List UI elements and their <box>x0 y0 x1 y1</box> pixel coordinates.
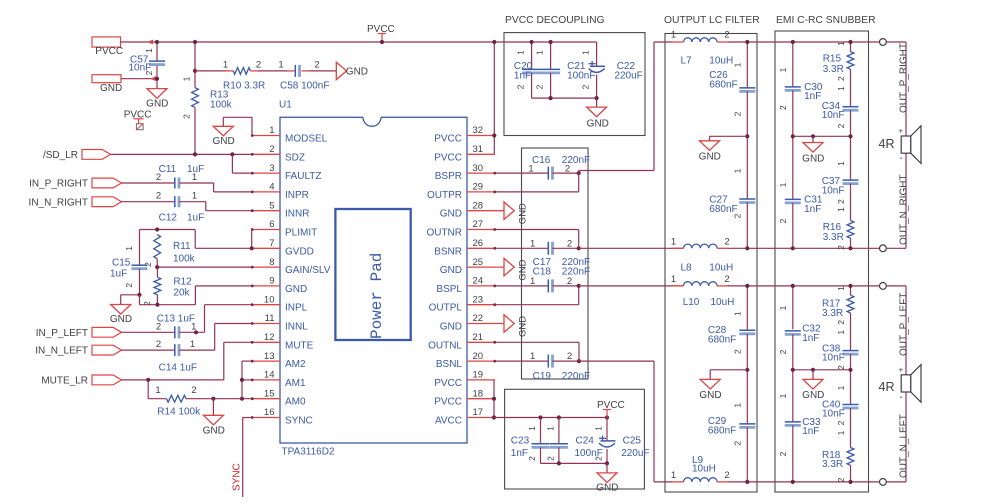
svg-text:1: 1 <box>836 430 846 435</box>
svg-text:4R: 4R <box>879 137 895 151</box>
svg-text:C13 1uF: C13 1uF <box>157 313 195 324</box>
svg-text:1: 1 <box>181 76 191 81</box>
svg-text:1: 1 <box>144 48 154 53</box>
svg-text:Power Pad: Power Pad <box>368 253 386 339</box>
svg-text:2: 2 <box>156 339 161 350</box>
svg-text:100k: 100k <box>173 254 196 265</box>
svg-text:OUT_N_LEFT: OUT_N_LEFT <box>899 414 910 478</box>
svg-text:2: 2 <box>124 283 134 288</box>
svg-text:GND: GND <box>802 154 824 165</box>
svg-text:+: + <box>899 127 904 136</box>
svg-text:2: 2 <box>836 123 846 128</box>
svg-text:2: 2 <box>724 470 729 481</box>
svg-text:2: 2 <box>156 190 161 201</box>
svg-text:3.3R: 3.3R <box>823 64 844 75</box>
svg-text:23: 23 <box>473 294 484 305</box>
svg-text:680nF: 680nF <box>709 79 737 90</box>
svg-text:2: 2 <box>724 30 729 41</box>
svg-text:GND: GND <box>100 83 122 94</box>
svg-text:PVCC: PVCC <box>434 134 462 145</box>
svg-text:2: 2 <box>515 84 525 89</box>
svg-text:1: 1 <box>733 403 743 408</box>
svg-text:2: 2 <box>181 114 191 119</box>
svg-text:22: 22 <box>473 313 484 324</box>
svg-text:EMI C-RC SNUBBER: EMI C-RC SNUBBER <box>776 15 876 26</box>
svg-text:19: 19 <box>473 370 484 381</box>
svg-text:C15: C15 <box>112 258 131 269</box>
svg-text:1nF: 1nF <box>802 333 819 344</box>
svg-text:AVCC: AVCC <box>435 416 462 427</box>
svg-text:4R: 4R <box>879 380 895 394</box>
svg-text:1nF: 1nF <box>802 426 819 437</box>
svg-text:1: 1 <box>528 163 533 174</box>
svg-text:1: 1 <box>124 246 134 251</box>
svg-text:2: 2 <box>778 349 788 354</box>
svg-text:R12: R12 <box>173 277 192 288</box>
svg-text:L10: L10 <box>683 297 700 308</box>
svg-text:1: 1 <box>223 60 228 71</box>
svg-text:R14 100k: R14 100k <box>157 407 201 418</box>
svg-text:2: 2 <box>534 84 544 89</box>
svg-text:GND: GND <box>699 390 721 401</box>
svg-text:MUTE_LR: MUTE_LR <box>41 376 88 387</box>
svg-text:GAIN/SLV: GAIN/SLV <box>285 265 331 276</box>
svg-text:BSPR: BSPR <box>435 171 462 182</box>
svg-text:2: 2 <box>778 218 788 223</box>
svg-text:2: 2 <box>733 441 743 446</box>
svg-text:100k: 100k <box>210 100 233 111</box>
svg-text:32: 32 <box>473 125 484 136</box>
svg-text:1uF: 1uF <box>110 268 127 279</box>
svg-text:MUTE: MUTE <box>285 340 314 351</box>
svg-text:20k: 20k <box>173 287 190 298</box>
svg-text:PLIMIT: PLIMIT <box>285 228 317 239</box>
svg-text:1: 1 <box>733 311 743 316</box>
svg-text:1uF: 1uF <box>187 212 204 223</box>
svg-text:GND: GND <box>110 314 132 325</box>
svg-text:31: 31 <box>473 144 484 155</box>
svg-text:1: 1 <box>671 470 676 481</box>
svg-text:U1: U1 <box>279 100 292 111</box>
svg-text:1: 1 <box>515 50 525 55</box>
svg-text:INNL: INNL <box>285 322 308 333</box>
svg-text:OUTNL: OUTNL <box>428 340 462 351</box>
svg-text:1: 1 <box>671 237 676 248</box>
svg-text:OUT_P_LEFT: OUT_P_LEFT <box>899 293 910 356</box>
svg-text:10nF: 10nF <box>822 353 845 364</box>
svg-text:3: 3 <box>269 163 274 174</box>
svg-text:1: 1 <box>836 161 846 166</box>
svg-text:OUTPR: OUTPR <box>427 190 462 201</box>
svg-text:220nF: 220nF <box>562 371 590 382</box>
svg-text:1: 1 <box>836 385 846 390</box>
svg-text:GND: GND <box>518 259 529 280</box>
svg-text:GND: GND <box>285 284 307 295</box>
svg-text:-: - <box>900 153 903 164</box>
svg-text:1: 1 <box>836 207 846 212</box>
svg-text:GND: GND <box>518 316 529 337</box>
svg-text:R11: R11 <box>173 241 191 252</box>
svg-text:1: 1 <box>269 125 274 136</box>
svg-text:BSPL: BSPL <box>436 284 462 295</box>
svg-text:17: 17 <box>473 407 484 418</box>
svg-text:1nF: 1nF <box>514 71 531 82</box>
svg-text:18: 18 <box>473 388 484 399</box>
svg-text:10uH: 10uH <box>709 263 733 274</box>
svg-text:1: 1 <box>594 426 604 431</box>
svg-text:GND: GND <box>440 265 462 276</box>
svg-text:2: 2 <box>836 76 846 81</box>
svg-text:680nF: 680nF <box>708 426 736 437</box>
svg-text:C18: C18 <box>533 267 552 278</box>
svg-text:OUT_P_RIGHT: OUT_P_RIGHT <box>899 43 910 113</box>
svg-text:1: 1 <box>190 339 195 350</box>
svg-text:C14 1uF: C14 1uF <box>159 363 197 374</box>
svg-text:R15: R15 <box>823 54 842 65</box>
svg-text:3.3R: 3.3R <box>823 232 844 243</box>
svg-text:C25: C25 <box>623 435 642 446</box>
svg-text:OUTNR: OUTNR <box>426 228 462 239</box>
svg-text:30: 30 <box>473 163 484 174</box>
svg-text:1: 1 <box>527 426 537 431</box>
svg-text:2: 2 <box>836 245 846 250</box>
svg-text:INPR: INPR <box>285 190 309 201</box>
svg-text:GND: GND <box>212 136 234 147</box>
svg-text:10uH: 10uH <box>692 464 716 475</box>
svg-text:2: 2 <box>724 237 729 248</box>
svg-text:220uF: 220uF <box>614 71 642 82</box>
svg-text:16: 16 <box>264 407 275 418</box>
svg-text:GND: GND <box>440 322 462 333</box>
svg-text:1: 1 <box>733 62 743 67</box>
svg-text:GND: GND <box>346 67 368 78</box>
svg-text:C23: C23 <box>511 435 530 446</box>
svg-text:1: 1 <box>530 351 535 362</box>
svg-text:220uF: 220uF <box>621 448 649 459</box>
svg-text:R10 3.3R: R10 3.3R <box>223 81 265 92</box>
svg-text:AM0: AM0 <box>285 397 306 408</box>
svg-text:2: 2 <box>191 385 196 396</box>
svg-text:GND: GND <box>587 118 609 129</box>
svg-text:10uH: 10uH <box>709 56 733 67</box>
svg-text:29: 29 <box>473 182 484 193</box>
svg-text:2: 2 <box>269 144 274 155</box>
svg-text:680nF: 680nF <box>708 335 736 346</box>
svg-text:1: 1 <box>778 305 788 310</box>
svg-text:PVCC: PVCC <box>434 378 462 389</box>
svg-text:OUT_N_RIGHT: OUT_N_RIGHT <box>899 174 910 245</box>
svg-text:680nF: 680nF <box>709 204 737 215</box>
svg-text:1: 1 <box>836 41 846 46</box>
svg-text:2: 2 <box>733 349 743 354</box>
svg-text:9: 9 <box>269 276 274 287</box>
svg-text:2: 2 <box>836 477 846 482</box>
svg-text:2: 2 <box>778 451 788 456</box>
svg-text:1uF: 1uF <box>187 164 204 175</box>
svg-text:AM1: AM1 <box>285 378 306 389</box>
svg-text:2: 2 <box>565 163 570 174</box>
svg-text:C11: C11 <box>159 164 177 175</box>
svg-text:PVCC DECOUPLING: PVCC DECOUPLING <box>505 15 605 26</box>
svg-text:1: 1 <box>192 190 197 201</box>
svg-text:BSNR: BSNR <box>434 246 462 257</box>
svg-text:100nF: 100nF <box>567 71 595 82</box>
svg-text:15: 15 <box>264 388 275 399</box>
svg-text:14: 14 <box>264 370 275 381</box>
svg-text:IN_N_RIGHT: IN_N_RIGHT <box>29 197 88 208</box>
svg-text:C12: C12 <box>159 212 178 223</box>
svg-text:MODSEL: MODSEL <box>285 134 328 145</box>
svg-text:6: 6 <box>269 219 274 230</box>
svg-text:2: 2 <box>545 456 555 461</box>
svg-text:C16: C16 <box>532 155 551 166</box>
svg-text:27: 27 <box>473 219 484 230</box>
svg-text:GND: GND <box>203 425 225 436</box>
svg-text:10nF: 10nF <box>822 110 845 121</box>
svg-text:2: 2 <box>733 111 743 116</box>
svg-text:13: 13 <box>264 351 275 362</box>
svg-text:2: 2 <box>733 213 743 218</box>
svg-text:10: 10 <box>264 294 275 305</box>
svg-text:26: 26 <box>473 238 484 249</box>
svg-text:C58 100nF: C58 100nF <box>280 81 329 92</box>
svg-text:GVDD: GVDD <box>285 246 314 257</box>
svg-text:GND: GND <box>440 209 462 220</box>
svg-text:7: 7 <box>269 238 274 249</box>
svg-text:20: 20 <box>473 351 484 362</box>
svg-text:IN_P_LEFT: IN_P_LEFT <box>36 328 88 339</box>
svg-text:25: 25 <box>473 257 484 268</box>
svg-text:/SD_LR: /SD_LR <box>43 150 78 161</box>
svg-text:2: 2 <box>836 320 846 325</box>
svg-text:L7: L7 <box>681 56 693 67</box>
svg-text:BSNL: BSNL <box>436 359 463 370</box>
svg-text:GND: GND <box>596 482 618 493</box>
svg-text:2: 2 <box>144 70 154 75</box>
svg-text:2: 2 <box>567 276 572 287</box>
svg-text:PVCC: PVCC <box>95 46 123 57</box>
svg-text:2: 2 <box>527 456 537 461</box>
svg-text:SDZ: SDZ <box>285 152 305 163</box>
svg-text:24: 24 <box>473 276 484 287</box>
svg-text:2: 2 <box>256 60 261 71</box>
svg-text:FAULTZ: FAULTZ <box>285 171 321 182</box>
svg-text:3.3R: 3.3R <box>822 459 843 470</box>
svg-text:2: 2 <box>836 420 846 425</box>
svg-text:1: 1 <box>580 50 590 55</box>
svg-text:PVCC: PVCC <box>434 152 462 163</box>
svg-text:21: 21 <box>473 332 484 343</box>
svg-text:SYNC: SYNC <box>232 463 243 491</box>
svg-text:2: 2 <box>778 105 788 110</box>
svg-text:GND: GND <box>518 203 529 224</box>
svg-text:4: 4 <box>269 182 274 193</box>
svg-text:1: 1 <box>278 60 283 71</box>
svg-text:1: 1 <box>733 168 743 173</box>
svg-text:1nF: 1nF <box>511 448 528 459</box>
svg-text:1: 1 <box>778 182 788 187</box>
svg-text:1: 1 <box>836 286 846 291</box>
svg-text:2: 2 <box>594 456 604 461</box>
svg-text:1: 1 <box>155 385 160 396</box>
svg-text:1: 1 <box>545 426 555 431</box>
svg-text:28: 28 <box>473 200 484 211</box>
svg-text:1nF: 1nF <box>804 91 821 102</box>
svg-text:2: 2 <box>314 60 319 71</box>
svg-text:1: 1 <box>671 30 676 41</box>
svg-text:1: 1 <box>836 330 846 335</box>
svg-text:+: + <box>899 365 904 374</box>
svg-text:5: 5 <box>269 200 274 211</box>
svg-text:11: 11 <box>265 313 275 324</box>
svg-text:3.3R: 3.3R <box>822 308 843 319</box>
svg-text:2: 2 <box>580 84 590 89</box>
svg-text:IN_P_RIGHT: IN_P_RIGHT <box>29 179 88 190</box>
svg-text:C19: C19 <box>533 371 552 382</box>
svg-text:2: 2 <box>724 274 729 285</box>
svg-text:2: 2 <box>567 351 572 362</box>
svg-text:1: 1 <box>778 393 788 398</box>
svg-text:1: 1 <box>836 86 846 91</box>
svg-text:2: 2 <box>567 239 572 250</box>
svg-text:10uH: 10uH <box>711 297 735 308</box>
svg-text:AM2: AM2 <box>285 359 306 370</box>
svg-text:SYNC: SYNC <box>285 416 313 427</box>
svg-text:C24: C24 <box>576 435 595 446</box>
svg-text:TPA3116D2: TPA3116D2 <box>282 447 335 458</box>
svg-text:IN_N_LEFT: IN_N_LEFT <box>35 346 88 357</box>
svg-text:8: 8 <box>269 257 274 268</box>
svg-text:10nF: 10nF <box>822 185 845 196</box>
svg-text:L8: L8 <box>681 263 693 274</box>
svg-text:OUTPL: OUTPL <box>429 303 463 314</box>
svg-text:OUTPUT LC FILTER: OUTPUT LC FILTER <box>664 15 760 26</box>
svg-text:2: 2 <box>836 365 846 370</box>
svg-text:PVCC: PVCC <box>434 397 462 408</box>
svg-text:2: 2 <box>143 262 153 267</box>
svg-text:12: 12 <box>264 332 275 343</box>
svg-text:GND: GND <box>699 151 721 162</box>
svg-text:1: 1 <box>671 274 676 285</box>
svg-text:1: 1 <box>530 239 535 250</box>
svg-text:1: 1 <box>530 276 535 287</box>
svg-text:2: 2 <box>836 199 846 204</box>
svg-text:10nF: 10nF <box>822 409 845 420</box>
svg-text:INNR: INNR <box>285 209 309 220</box>
svg-text:1: 1 <box>534 50 544 55</box>
svg-text:1nF: 1nF <box>804 204 821 215</box>
svg-text:INPL: INPL <box>285 303 308 314</box>
svg-text:-: - <box>900 392 903 403</box>
svg-text:1: 1 <box>778 67 788 72</box>
svg-text:GND: GND <box>146 99 168 110</box>
